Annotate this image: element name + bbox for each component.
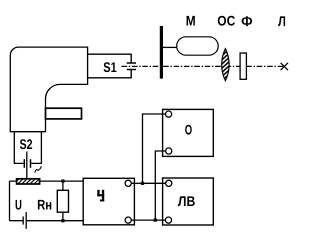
lens OC	[222, 49, 229, 81]
supply loop left wire	[9, 181, 11, 221]
resistor Rn leads	[62, 181, 64, 221]
svg-text:S1: S1	[103, 59, 117, 75]
wire to O bottom input	[155, 151, 168, 220]
junction bottom	[61, 219, 64, 222]
wire to O top input	[143, 114, 169, 183]
wire bar to modulator M	[163, 46, 177, 48]
filter F	[240, 53, 246, 79]
resistor Rn	[57, 190, 68, 212]
modulation squiggle	[35, 167, 41, 173]
shutter S1 enclosure	[88, 54, 132, 79]
supply loop bottom wire	[10, 220, 84, 222]
photoresistor (hatched)	[17, 179, 40, 184]
label amplifier (blocky Cyrillic u)	[97, 190, 104, 202]
modulator M capsule	[177, 37, 219, 55]
shutter S2 channel	[14, 132, 41, 164]
svg-text:Л: Л	[278, 13, 286, 29]
svg-text:Ф: Ф	[241, 13, 253, 29]
svg-text:ЛВ: ЛВ	[178, 193, 195, 209]
optical axis	[122, 65, 285, 67]
junction at U-LV top wire	[141, 182, 144, 185]
shutter S2 plates	[24, 159, 30, 168]
photodetector housing (elbow tube)	[10, 47, 87, 132]
oscillograph box O	[163, 109, 214, 156]
wire U to LV bottom	[128, 219, 168, 221]
svg-text:ОС: ОС	[217, 13, 235, 29]
amplifier box U	[83, 178, 134, 225]
terminal U out top	[125, 180, 131, 186]
lamp slit bar	[160, 26, 163, 79]
supply loop top wire	[10, 180, 84, 182]
shutter S1 plates	[127, 63, 136, 70]
svg-text:М: М	[186, 13, 196, 29]
wire from S2 to photoresistor	[26, 152, 28, 179]
svg-text:S2: S2	[20, 136, 33, 152]
window tab on housing	[46, 108, 82, 119]
battery	[23, 212, 26, 229]
svg-text:Rн: Rн	[37, 196, 52, 212]
recorder box LV	[163, 178, 214, 225]
terminal LV in bottom	[165, 217, 171, 223]
terminal O in top	[166, 111, 172, 117]
junction top	[61, 180, 64, 183]
svg-text:U: U	[15, 196, 22, 212]
wire U to LV top	[128, 182, 169, 184]
terminal LV in top	[166, 180, 172, 186]
svg-text:О: О	[185, 122, 192, 138]
terminal O in bottom	[166, 148, 172, 154]
junction at U-LV bottom wire	[154, 219, 157, 222]
cross mark (lamp position L)	[281, 63, 288, 70]
terminal U out bottom	[125, 217, 131, 223]
